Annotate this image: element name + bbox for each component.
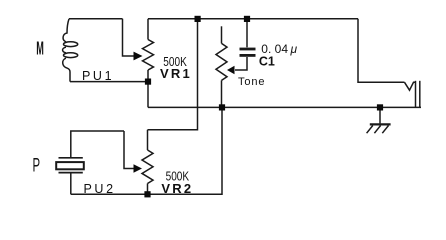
piezo PU2 top plate xyxy=(59,157,83,159)
wire PU2 right side down to wiper xyxy=(124,131,136,169)
capacitor C1 plate bottom xyxy=(240,54,256,57)
jack J1 barrel bar right xyxy=(419,81,421,108)
pickup PU1 coil loop 1 xyxy=(64,42,78,47)
piezo PU2 element body xyxy=(56,162,84,169)
potentiometer VR2 bottom lead xyxy=(147,184,149,195)
piezo PU2 bottom plate xyxy=(59,172,83,174)
ground hatch 1 xyxy=(367,126,373,134)
ground hatch 2 xyxy=(374,126,380,134)
pickup PU1 coil xyxy=(63,19,70,82)
wire output bus vertical x197.5 xyxy=(148,19,198,130)
node top rail / C1 xyxy=(244,16,250,22)
wire PU1 bottom to VR1 bottom xyxy=(70,81,148,83)
svg-text:VR1: VR1 xyxy=(160,66,192,81)
wire PU2 bottom / ground return xyxy=(71,107,222,194)
svg-text:C1: C1 xyxy=(259,54,275,68)
svg-text:Tone: Tone xyxy=(238,76,265,88)
piezo PU2 bottom lead xyxy=(70,173,72,194)
wire bottom rail xyxy=(148,106,421,108)
wire top rail right drop to jack xyxy=(358,19,405,83)
node PU1 cold / VR1 bottom xyxy=(145,79,151,85)
potentiometer VR1 bottom lead xyxy=(147,70,149,107)
svg-text:VR2: VR2 xyxy=(161,181,193,196)
capacitor C1 bottom lead to tone wiper xyxy=(235,57,247,70)
wire top rail xyxy=(148,18,358,20)
node bottom rail / ground symbol xyxy=(377,104,383,110)
ground hatch 3 xyxy=(382,126,388,134)
node bottom rail / tone pot ground xyxy=(219,104,225,110)
pickup PU1 coil loop 2 xyxy=(64,53,78,58)
node top rail / output bus xyxy=(195,16,201,22)
svg-text:P: P xyxy=(33,156,41,177)
capacitor C1 plate top xyxy=(240,48,256,51)
wire PU1 top xyxy=(69,18,123,20)
ground bar xyxy=(370,123,391,125)
jack J1 tip notch xyxy=(405,82,416,90)
potentiometer VR2 top lead xyxy=(147,130,149,150)
potentiometer VR1 zigzag xyxy=(143,40,154,71)
potentiometer VR2 zigzag xyxy=(142,150,153,184)
potentiometer VR1 top lead xyxy=(147,19,149,40)
potentiometer Tone bottom lead xyxy=(221,80,223,107)
wire PU2 top xyxy=(71,131,124,157)
svg-text:PU1: PU1 xyxy=(82,69,114,83)
ground stub xyxy=(379,107,381,123)
svg-text:μ: μ xyxy=(290,42,298,56)
arrowhead wiper VR2 xyxy=(134,164,143,173)
potentiometer Tone free top lead xyxy=(221,26,223,43)
wire PU1 right side down to wiper xyxy=(123,19,135,56)
jack J1 barrel bar left xyxy=(415,81,417,108)
node PU2 cold / VR2 bottom xyxy=(144,191,150,197)
svg-text:M: M xyxy=(36,39,44,59)
arrowhead wiper VR1 xyxy=(134,52,143,61)
svg-text:PU2: PU2 xyxy=(84,182,116,196)
potentiometer Tone zigzag xyxy=(216,43,227,80)
arrowhead wiper Tone xyxy=(227,66,235,74)
capacitor C1 top lead xyxy=(246,19,248,48)
